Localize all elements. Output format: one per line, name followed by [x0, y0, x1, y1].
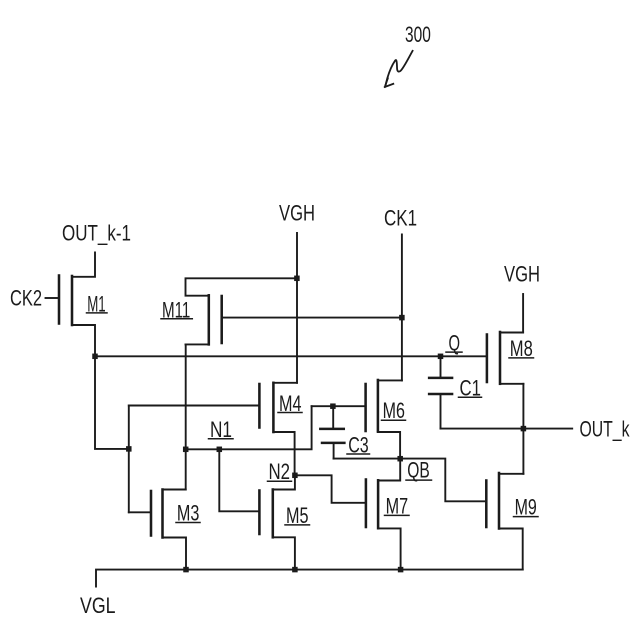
svg-text:CK1: CK1	[384, 206, 417, 231]
wire M11 gate to CK1	[222, 317, 402, 319]
wire M4 gate	[129, 405, 260, 407]
wire VGL rail	[96, 570, 523, 587]
svg-text:VGH: VGH	[504, 262, 540, 287]
transistor M4	[259, 383, 302, 476]
transistor M8	[487, 332, 534, 384]
transistor M3	[151, 490, 200, 570]
wire M4/M3 gate column	[128, 406, 130, 513]
node junction M7 source on VGL	[398, 567, 404, 573]
svg-text:CK2: CK2	[10, 286, 42, 311]
capacitor C3	[320, 406, 369, 458]
svg-text:VGL: VGL	[80, 594, 116, 618]
node junction C3 top / M6 gate	[330, 403, 336, 409]
transistor M6	[366, 380, 406, 459]
node junction M3 source on VGL	[183, 567, 189, 573]
node junction N1 left / gate column	[126, 446, 132, 452]
node junction Q/C1	[438, 354, 444, 360]
svg-text:VGH: VGH	[279, 201, 315, 226]
lead-line arrow to 300	[385, 51, 413, 87]
wire CK2 to M1 gate	[46, 297, 60, 299]
wire CK1 vertical	[401, 235, 403, 381]
wire VGH vertical	[296, 233, 298, 383]
svg-text:OUT_k: OUT_k	[580, 417, 630, 442]
node junction VGH/M11 drain	[294, 276, 300, 282]
transistor M11	[161, 278, 297, 344]
node junction N1/M5 gate	[217, 447, 223, 453]
capacitor C1	[429, 356, 481, 428]
label Q	[446, 331, 462, 356]
node QB junction	[397, 456, 403, 462]
transistor M9	[486, 473, 538, 570]
node junction CK1/M11 gate	[399, 315, 405, 321]
node junction N1/M11 source	[183, 447, 189, 453]
transistor M7	[366, 459, 409, 570]
wire Q row (M1 source to M8 gate)	[95, 355, 487, 357]
node junction OUT_k	[521, 426, 527, 432]
label QB	[406, 458, 432, 484]
transistor M1	[59, 253, 107, 357]
label N1	[209, 418, 234, 443]
node junction M1 source	[92, 354, 98, 360]
label N2	[268, 460, 292, 485]
wire N1 right segment	[186, 406, 312, 449]
node junction M5 source on VGL	[292, 567, 298, 573]
wire VGH right vertical	[522, 294, 524, 333]
node N2 junction	[292, 473, 298, 479]
wire M5 gate column	[219, 449, 259, 511]
wire N2 to M7 gate	[295, 475, 366, 503]
wire M8 source to M9 drain	[522, 384, 524, 474]
wire OUT_k	[441, 428, 573, 430]
wire M6 gate	[312, 405, 366, 407]
wire M11 source / M3 drain column	[185, 344, 187, 489]
svg-text:OUT_k-1: OUT_k-1	[62, 221, 131, 246]
svg-text:300: 300	[405, 23, 431, 47]
wire QB row (C3 bottom to M9 gate)	[334, 459, 487, 502]
wire M1 source down to N1 left	[95, 356, 129, 449]
wire M3 gate	[129, 511, 151, 513]
transistor M5	[259, 475, 309, 569]
